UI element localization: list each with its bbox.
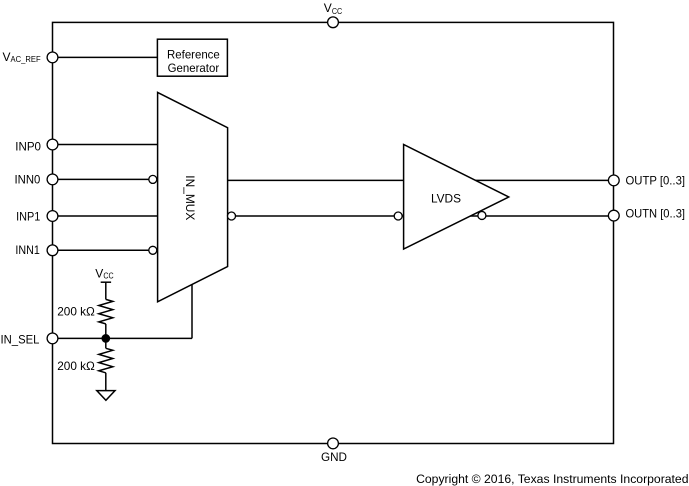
pin INN1 [47, 245, 58, 256]
svg-text:INP0: INP0 [15, 140, 41, 154]
pin IN_SEL [47, 333, 58, 344]
op-amp LVDS driver [404, 145, 509, 250]
mux IN_MUX [158, 92, 228, 301]
svg-text:IN_MUX: IN_MUX [183, 175, 197, 220]
wire mux upper output to LVDS [228, 179, 404, 181]
pin OUTP [608, 175, 619, 186]
wire R1 to junction [105, 324, 107, 339]
junction dot IN_SEL node [101, 334, 110, 343]
svg-text:200 kΩ: 200 kΩ [57, 359, 95, 373]
svg-text:INP1: INP1 [16, 210, 40, 224]
bubble INN1 at mux input [149, 246, 157, 254]
wire VAC_REF to Reference Generator [53, 56, 158, 58]
svg-text:Copyright © 2016, Texas Instru: Copyright © 2016, Texas Instruments Inco… [416, 472, 688, 486]
pin VCC [328, 17, 339, 28]
pin OUTN [608, 210, 619, 221]
Reference Generator box U1 [157, 39, 227, 76]
wire INN0 [53, 178, 158, 180]
svg-text:OUTN [0..3]: OUTN [0..3] [626, 207, 686, 221]
chip boundary [53, 22, 614, 443]
svg-text:INN1: INN1 [15, 243, 40, 257]
svg-text:INN0: INN0 [15, 172, 41, 186]
ground [97, 391, 115, 401]
svg-text:Generator: Generator [168, 61, 220, 75]
pin GND [328, 438, 339, 449]
wire LVDS lower output to OUTN [470, 215, 614, 217]
wire LVDS upper output to OUTP [475, 179, 614, 181]
wire INP1 [53, 215, 158, 217]
bubble LVDS lower input [394, 212, 402, 220]
wire VCC tick to R1 [105, 282, 107, 299]
wire INN1 [53, 249, 158, 251]
pin VAC_REF [47, 52, 58, 63]
pin INP1 [47, 211, 58, 222]
svg-text:OUTP [0..3]: OUTP [0..3] [626, 174, 686, 188]
resistor R1 200k [99, 299, 113, 324]
wire R2 to ground [105, 373, 107, 391]
wire IN_SEL up to mux [191, 284, 193, 338]
svg-text:200 kΩ: 200 kΩ [57, 304, 95, 318]
bubble mux lower output [228, 212, 236, 220]
wire INP0 [53, 144, 158, 146]
wire IN_SEL horizontal [53, 337, 193, 339]
svg-text:Reference: Reference [167, 47, 220, 61]
svg-text:IN_SEL: IN_SEL [1, 332, 40, 346]
wire mux lower output to LVDS [228, 215, 404, 217]
wire junction to R2 [105, 338, 107, 348]
pin INP0 [47, 139, 58, 150]
resistor R2 200k [99, 348, 113, 373]
pin INN0 [47, 174, 58, 185]
bubble LVDS lower output [478, 211, 486, 219]
bubble INN0 at mux input [149, 175, 157, 183]
resistor divider VCC rail tick [101, 281, 111, 283]
svg-text:GND: GND [321, 450, 347, 464]
svg-text:LVDS: LVDS [431, 192, 461, 206]
